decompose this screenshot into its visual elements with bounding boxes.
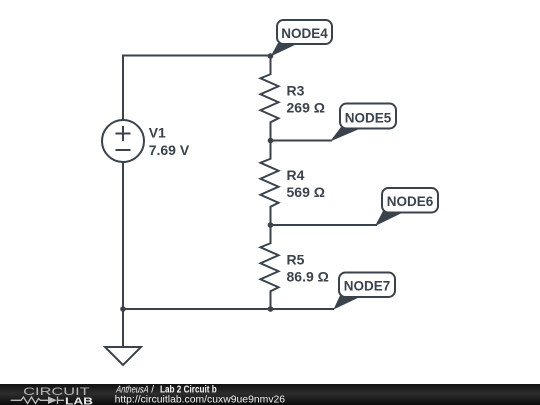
node NODE7 junction dot — [268, 306, 274, 312]
node NODE4 callout — [271, 20, 333, 57]
voltage source V1 — [102, 120, 190, 162]
svg-text:269 Ω: 269 Ω — [287, 100, 325, 116]
wire top rail from V1 to NODE4 — [123, 56, 271, 121]
svg-text:V1: V1 — [149, 125, 166, 141]
svg-text:NODE4: NODE4 — [281, 25, 328, 41]
wire ground stub — [122, 309, 124, 347]
node NODE6 junction dot — [268, 222, 274, 228]
wire bottom ground rail — [123, 308, 334, 310]
svg-text:http://circuitlab.com/cuxw9ue9: http://circuitlab.com/cuxw9ue9nmv26 — [115, 394, 286, 405]
wire V1 bottom lead to ground rail — [122, 162, 124, 309]
resistor R3 — [261, 56, 325, 141]
wire NODE5 stub — [271, 140, 333, 142]
ground — [105, 347, 141, 365]
svg-text:86.9 Ω: 86.9 Ω — [287, 268, 329, 284]
svg-text:R4: R4 — [287, 167, 305, 183]
svg-text:569 Ω: 569 Ω — [287, 184, 325, 200]
wire NODE6 stub — [271, 224, 378, 226]
node ground junction dot — [120, 306, 126, 312]
svg-text:7.69 V: 7.69 V — [149, 142, 190, 158]
svg-text:R3: R3 — [287, 83, 305, 99]
resistor R5 — [261, 225, 329, 309]
footer title line — [115, 384, 217, 395]
CircuitLab logo resistor-diode glyph — [11, 397, 64, 405]
node NODE5 junction dot — [268, 138, 274, 144]
svg-text:NODE6: NODE6 — [387, 193, 434, 209]
svg-text:NODE5: NODE5 — [345, 109, 392, 125]
svg-text:LAB: LAB — [65, 396, 94, 405]
node NODE6 callout — [375, 188, 438, 226]
svg-text:R5: R5 — [287, 251, 305, 267]
resistor R4 — [261, 141, 325, 226]
svg-text:NODE7: NODE7 — [344, 278, 391, 294]
node NODE7 callout — [334, 273, 396, 310]
node NODE5 callout — [330, 104, 396, 142]
node NODE4 junction dot — [268, 53, 274, 59]
